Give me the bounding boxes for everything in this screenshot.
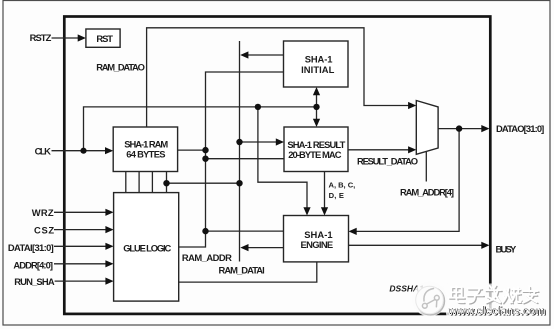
arrowhead RUN_SHA into glue	[105, 278, 113, 285]
chip boundary (thick box)	[64, 17, 490, 314]
junction dot RAM out	[202, 147, 208, 153]
block SHA-1 RAM	[113, 127, 177, 172]
svg-text:64 BYTES: 64 BYTES	[126, 149, 165, 160]
wire RAM_DATAO top route RAM top to mux input	[147, 28, 410, 127]
mux	[416, 101, 438, 155]
wire RAM bottom connector 3	[151, 172, 153, 193]
wire RESULT_DATAO	[348, 149, 410, 151]
svg-text:20-BYTE MAC: 20-BYTE MAC	[288, 149, 342, 160]
wire mux select RAM_ADDR[4]	[425, 152, 427, 182]
watermark logo circle	[412, 282, 447, 317]
arrowhead BUSY out	[481, 242, 489, 249]
svg-text:WRZ: WRZ	[32, 207, 54, 218]
arrowhead ADDR into glue	[105, 260, 113, 267]
wire RSTZ to RST	[52, 37, 80, 39]
wire CSZ input	[54, 229, 107, 231]
arrowhead DATAO out	[481, 125, 489, 132]
wire CLK branch up and right	[84, 107, 317, 151]
svg-text:ADDR[4:0]: ADDR[4:0]	[13, 259, 53, 270]
wire RAM_ADDR net x205	[179, 72, 284, 247]
arrowhead CLK into RAM	[105, 147, 113, 154]
junction dot RESULT branch	[202, 156, 208, 162]
arrowhead DATAI into glue	[105, 243, 113, 250]
junction dot engine-left branch	[202, 228, 208, 234]
junction dot glue-top branch	[163, 180, 169, 186]
wire engine bottom to glue	[179, 262, 317, 282]
wire A B C D E result to engine	[324, 172, 326, 209]
svg-text:DATAO[31:0]: DATAO[31:0]	[496, 123, 544, 134]
wire mux output to DATAO	[438, 128, 482, 130]
wire RAM_DATAI net x239.5	[239, 41, 241, 262]
junction dot mux output	[456, 125, 462, 131]
junction dot RAM_DATAI to RESULT	[236, 139, 242, 145]
watermark chinese text shadow	[450, 287, 539, 304]
arrowhead A-E into engine top	[321, 207, 328, 215]
wire initial-result bidirectional shaft	[316, 94, 318, 121]
svg-text:CLK: CLK	[35, 146, 52, 157]
svg-text:DATAI[31:0]: DATAI[31:0]	[8, 242, 54, 253]
wire RUN_SHA input	[55, 280, 107, 282]
junction dot RAM_DATAI to glue	[236, 180, 242, 186]
arrowhead into RESULT left	[276, 138, 284, 145]
svg-text:CSZ: CSZ	[34, 224, 54, 235]
svg-text:RSTZ: RSTZ	[30, 32, 52, 43]
arrowhead CSZ into glue	[105, 226, 113, 233]
wire node to SHA-1 RESULT left	[206, 158, 285, 160]
arrowhead up into INITIAL bottom	[313, 87, 320, 95]
svg-text:www.elecfans.com: www.elecfans.com	[447, 303, 545, 317]
svg-text:ENGINE: ENGINE	[301, 239, 334, 250]
junction dot on bidirectional arrow	[313, 104, 319, 110]
svg-text:RAM_ADDR[4]: RAM_ADDR[4]	[400, 186, 454, 197]
wire CLK input	[52, 150, 107, 152]
wire RAM bottom connector 2	[138, 172, 140, 193]
block SHA-1 RESULT	[284, 127, 348, 172]
arrowhead into engine top from x258	[303, 207, 310, 215]
svg-text:RUN_SHA: RUN_SHA	[14, 276, 55, 287]
svg-text:SHA-1: SHA-1	[305, 53, 333, 64]
wire ADDR input	[54, 263, 107, 265]
wire DATAI input	[54, 245, 107, 247]
wire RAM bottom connector 1	[125, 172, 127, 193]
watermark chinese text white face	[449, 285, 538, 302]
svg-text:RST: RST	[96, 33, 113, 44]
junction dot CLK branch	[80, 148, 86, 154]
wire node to RAM_DATAI net	[167, 182, 240, 184]
block SHA-1 INITIAL	[284, 41, 349, 87]
wire RAM bottom connector 4	[166, 172, 168, 193]
arrowhead feedback into engine right	[349, 228, 357, 235]
block RST	[86, 29, 120, 47]
wire SHA-1 INITIAL output left	[248, 54, 284, 56]
svg-text:INITIAL: INITIAL	[301, 64, 335, 75]
arrowhead RESULT_DATAO into mux	[408, 146, 416, 153]
svg-text:RESULT_DATAO: RESULT_DATAO	[357, 156, 418, 167]
watermark backing glow	[443, 284, 546, 305]
wire feedback DATAO to engine	[356, 129, 460, 232]
svg-text:A, B, C,: A, B, C,	[329, 180, 356, 189]
arrowhead INITIAL output pointing left	[240, 51, 248, 58]
svg-text:D, E: D, E	[329, 191, 344, 200]
svg-text:BUSY: BUSY	[496, 243, 518, 254]
arrowhead into mux top input	[408, 102, 416, 109]
svg-text:RAM_DATAO: RAM_DATAO	[96, 61, 145, 72]
svg-text:RAM_ADDR: RAM_ADDR	[182, 252, 232, 263]
arrowhead down into RESULT top	[313, 119, 320, 127]
svg-text:GLUE LOGIC: GLUE LOGIC	[123, 242, 171, 253]
arrowhead into RST	[78, 34, 86, 41]
arrowhead engine output pointing left	[240, 244, 248, 251]
wire BUSY	[349, 244, 483, 246]
junction dot x258 on CLK line	[255, 104, 261, 110]
block SHA-1 ENGINE	[284, 216, 349, 262]
wire node to SHA-1 RESULT input	[240, 141, 277, 143]
svg-text:RAM_DATAI: RAM_DATAI	[219, 265, 265, 276]
wire WRZ input	[54, 211, 107, 213]
wire node x258 down to engine top	[258, 107, 307, 209]
wire node to engine left	[206, 230, 284, 232]
wire engine output to RAM_DATAI	[248, 247, 283, 249]
block GLUE LOGIC	[114, 193, 179, 302]
wire RAM right to node	[178, 149, 206, 151]
arrowhead WRZ into glue	[105, 209, 113, 216]
